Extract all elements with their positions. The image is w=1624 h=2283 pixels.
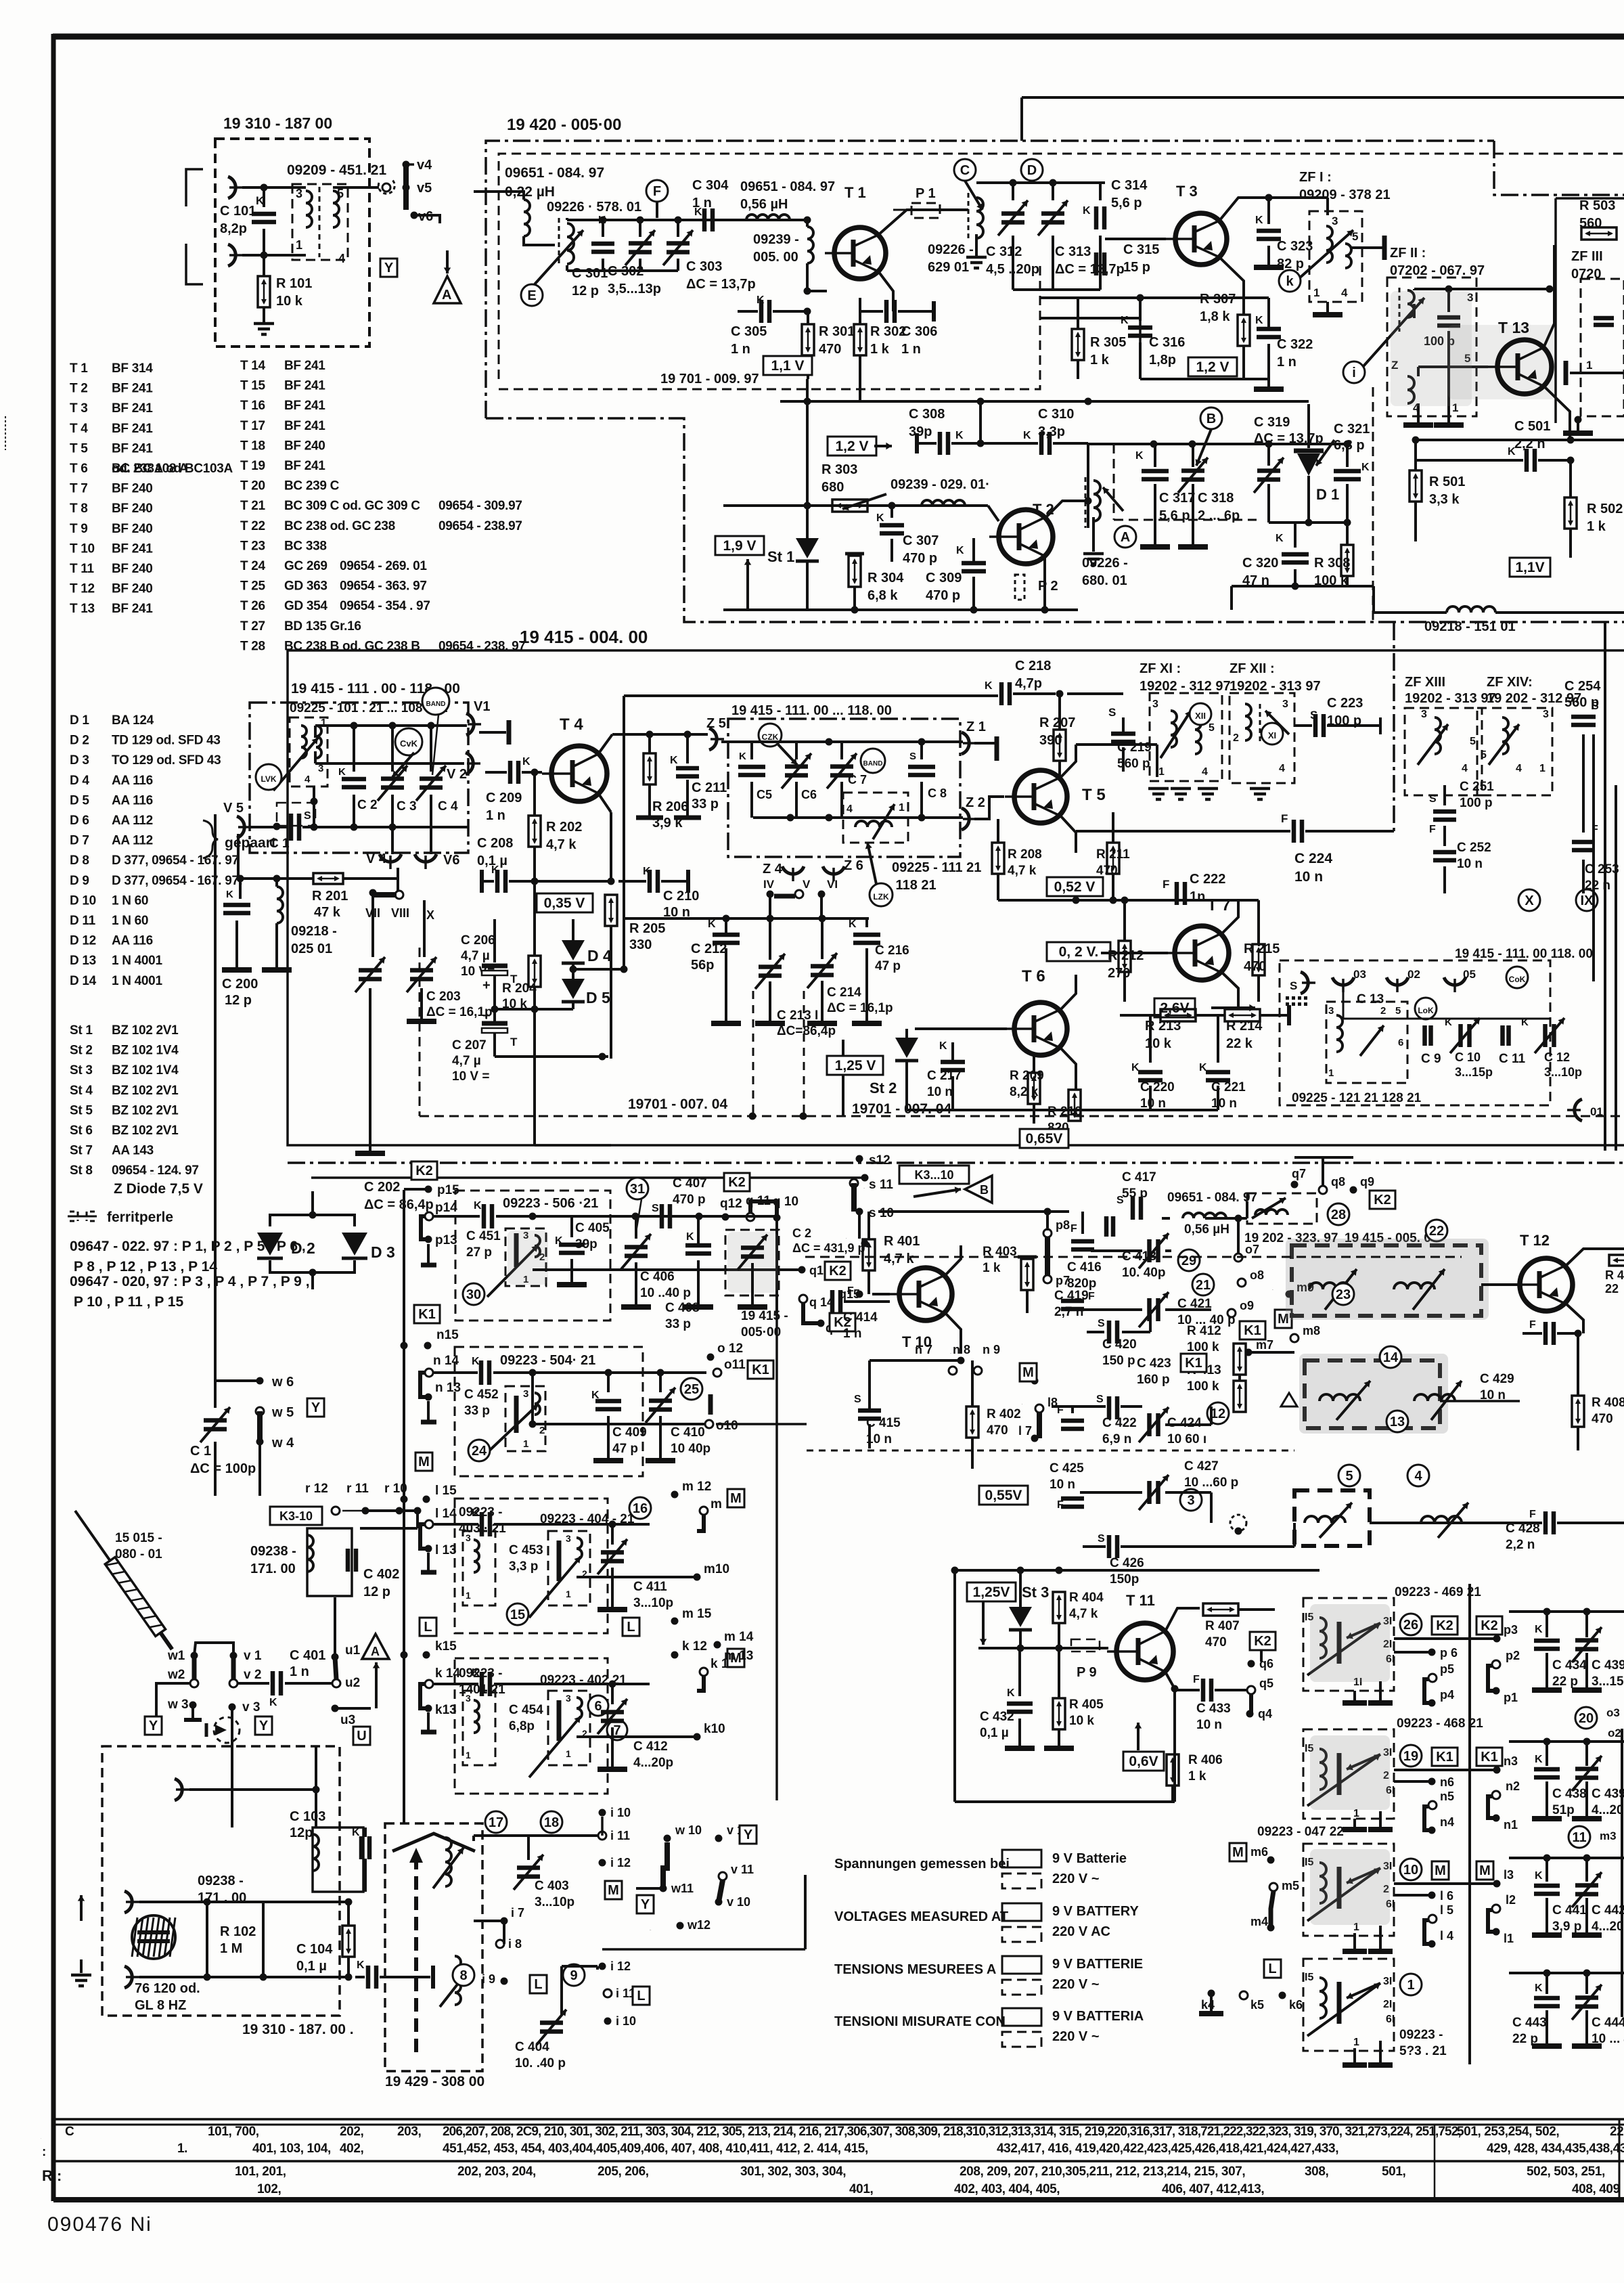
terminals u1 u2 xyxy=(332,1654,339,1661)
svg-text:K: K xyxy=(670,755,678,766)
svg-text:S: S xyxy=(909,751,916,762)
svg-text:E: E xyxy=(527,288,536,303)
trimmer C439b xyxy=(1585,1742,1588,1766)
svg-text:n2: n2 xyxy=(1506,1779,1520,1793)
ground ZF XI xyxy=(1148,789,1169,799)
svg-text:S: S xyxy=(1116,1195,1124,1206)
svg-text:LoK: LoK xyxy=(1418,1006,1434,1015)
svg-text:ferritperle: ferritperle xyxy=(107,1210,173,1225)
svg-text:k6: k6 xyxy=(1289,1998,1303,2012)
trimmer C412 xyxy=(611,1684,614,1704)
svg-text:4: 4 xyxy=(1462,763,1468,774)
svg-text:K: K xyxy=(686,1231,694,1243)
ZF XIV box xyxy=(1477,708,1552,795)
resistor R405 xyxy=(1053,1698,1065,1729)
terminal p6 xyxy=(1428,1649,1436,1656)
circled 23 xyxy=(1332,1283,1354,1305)
ground left xyxy=(80,1959,83,1973)
terminals v12 v11 v10 xyxy=(715,1835,723,1842)
svg-text:C 4: C 4 xyxy=(438,799,458,814)
svg-text:C 200: C 200 xyxy=(222,977,258,992)
svg-text:09209 - 451. 21: 09209 - 451. 21 xyxy=(287,162,386,178)
svg-text:k 12: k 12 xyxy=(682,1639,707,1654)
capacitor C433 xyxy=(1203,1679,1211,1702)
diode D3 xyxy=(342,1233,367,1256)
R412 actual xyxy=(1234,1344,1246,1375)
svg-text:429, 428, 434,435,438,439,44: 429, 428, 434,435,438,439,44 xyxy=(1487,2142,1624,2156)
terminals m9 m8 m7 xyxy=(1286,1291,1293,1298)
svg-text:29: 29 xyxy=(1181,1254,1196,1268)
trimmer C302 xyxy=(639,220,641,237)
resistor R402 xyxy=(966,1406,978,1438)
module box 19310-187.00 xyxy=(215,139,369,347)
antenna dashed box 19429-308.00 xyxy=(385,1823,482,2071)
trimmer C2 gang xyxy=(725,1230,779,1295)
circle k xyxy=(1279,270,1301,292)
svg-text:p13: p13 xyxy=(435,1233,457,1247)
svg-text:3: 3 xyxy=(566,1533,571,1544)
terminal k15 xyxy=(423,1652,430,1659)
bold dashed tuner box 2 xyxy=(1305,1360,1440,1428)
capacitor C434 xyxy=(1546,1612,1548,1637)
coil switch bank1 xyxy=(505,1228,546,1286)
svg-text:5: 5 xyxy=(1395,1005,1401,1017)
voltage box 0.65V xyxy=(1020,1129,1068,1148)
terminal l13 xyxy=(425,1545,432,1553)
svg-text:w 10: w 10 xyxy=(675,1823,702,1837)
resistor R102 xyxy=(342,1926,355,1957)
svg-text:4: 4 xyxy=(1516,763,1522,774)
svg-text:09223 - 468 21: 09223 - 468 21 xyxy=(1397,1716,1483,1731)
wire l8 row xyxy=(1052,1405,1106,1408)
K2 boxes t10 xyxy=(830,1313,855,1331)
svg-text:VIII: VIII xyxy=(391,906,409,920)
resistor R413 xyxy=(1234,1381,1246,1412)
capacitor C432 xyxy=(1018,1648,1021,1696)
svg-text:k15: k15 xyxy=(435,1639,457,1654)
svg-text:5: 5 xyxy=(1470,736,1476,747)
wire w4 down xyxy=(258,1442,261,1496)
small dashed box 28 xyxy=(1247,1193,1317,1224)
trimmer C410 xyxy=(659,1373,662,1392)
resistor R406 xyxy=(1167,1754,1179,1786)
terminal q11 xyxy=(746,1213,754,1221)
w1-v1 bridge xyxy=(194,1643,233,1656)
M box right col xyxy=(1230,1843,1246,1861)
terminal i9 xyxy=(501,1978,508,1985)
capacitor C2 xyxy=(353,726,355,772)
voltage box 0.55V xyxy=(979,1486,1028,1505)
circled 9 xyxy=(563,1964,585,1986)
diode D5 xyxy=(572,962,574,980)
terminal l5 xyxy=(1428,1915,1437,1923)
mid dashdot tuner box xyxy=(728,719,960,857)
C438 C439b rail xyxy=(1509,1740,1624,1743)
svg-text:2: 2 xyxy=(539,1425,545,1436)
svg-text:3: 3 xyxy=(1543,709,1549,720)
svg-text:1: 1 xyxy=(1328,1067,1334,1079)
svg-text:T: T xyxy=(510,1036,518,1048)
svg-text:w2: w2 xyxy=(167,1668,185,1682)
terminal q6 xyxy=(1248,1660,1255,1668)
K2 box q15 xyxy=(825,1262,851,1280)
svg-text:K: K xyxy=(1535,1870,1543,1882)
T11 emitter xyxy=(1165,1672,1175,1802)
svg-text:M: M xyxy=(730,1491,742,1506)
capacitor C253 xyxy=(1572,842,1595,850)
transistor T4 xyxy=(542,746,607,801)
band switch V4 contacts xyxy=(397,868,399,891)
svg-text:K: K xyxy=(491,864,499,876)
bank4 dashed 09223-401/402 xyxy=(455,1658,608,1794)
antenna mast dashed arrow xyxy=(414,1856,418,2056)
terminal pair mid xyxy=(378,180,394,194)
trimmer C411 xyxy=(611,1524,614,1545)
wire transformer out xyxy=(333,186,379,189)
varicap D1 xyxy=(1307,404,1310,448)
svg-text:K: K xyxy=(1007,1687,1015,1699)
svg-text:3: 3 xyxy=(1152,699,1158,710)
svg-text:K: K xyxy=(1508,446,1516,458)
svg-text:Y: Y xyxy=(149,1719,158,1733)
legend symbol 3 xyxy=(1002,1956,1041,1974)
svg-text:n 7: n 7 xyxy=(915,1343,932,1356)
svg-text:09226 · 578. 01: 09226 · 578. 01 xyxy=(547,200,641,215)
svg-text:19 310 - 187. 00 .: 19 310 - 187. 00 . xyxy=(242,2022,354,2037)
capacitor C103 xyxy=(361,1836,369,1859)
terminals k12 k11 k10 xyxy=(671,1652,679,1659)
svg-text:C 1: C 1 xyxy=(269,837,290,851)
terminal l2 xyxy=(1492,1905,1500,1913)
terminal n13 xyxy=(425,1394,432,1401)
capacitor C217 xyxy=(941,1062,965,1070)
svg-text:M: M xyxy=(1435,1863,1446,1878)
svg-text:i: i xyxy=(1352,365,1356,380)
module border 19415-004.00 xyxy=(288,650,1624,1145)
capacitor C316 xyxy=(1139,298,1142,321)
svg-text:i 12: i 12 xyxy=(610,1959,631,1973)
svg-text:F: F xyxy=(1070,1223,1077,1235)
svg-text:S: S xyxy=(1429,793,1437,805)
transistor T1 xyxy=(825,227,886,279)
wires t10 long xyxy=(805,1256,1462,1258)
wire ZFI pin1 gnd xyxy=(1326,302,1329,313)
svg-text:220 V ~: 220 V ~ xyxy=(1052,2029,1100,2044)
svg-text:Z 5: Z 5 xyxy=(706,716,726,731)
terminal n1 xyxy=(1493,1815,1500,1822)
svg-text:1: 1 xyxy=(566,1589,571,1599)
svg-text:K2: K2 xyxy=(728,1175,746,1190)
bottom stage rail xyxy=(723,608,1078,611)
svg-text:T 2: T 2 xyxy=(1033,501,1054,518)
voltage box 1.25V t11 xyxy=(967,1582,1016,1601)
transistor T6 xyxy=(1005,1002,1067,1055)
svg-text:v 2: v 2 xyxy=(244,1668,261,1682)
svg-text:4: 4 xyxy=(338,252,345,265)
terminal q4 xyxy=(1246,1710,1254,1718)
svg-text:408, 409: 408, 409 xyxy=(1572,2182,1620,2196)
long bus wire T1 emitter row xyxy=(780,400,1309,403)
wire ZFI pin5 out xyxy=(1351,246,1384,249)
wire o7 stub xyxy=(1237,1218,1240,1254)
circled 31 xyxy=(627,1178,648,1199)
module box 19310-187.00 bottom xyxy=(102,1746,340,2016)
capacitor C223 xyxy=(1315,714,1324,737)
wire T3 emitter xyxy=(1219,257,1244,298)
svg-text:T 6: T 6 xyxy=(1022,967,1045,985)
circled 21 xyxy=(1192,1274,1214,1295)
svg-text:St 1: St 1 xyxy=(767,548,794,565)
ZF XII box xyxy=(1230,693,1294,783)
wire p9 row xyxy=(878,1210,1069,1213)
svg-text:k 14: k 14 xyxy=(435,1666,460,1681)
svg-text:L: L xyxy=(637,1989,645,2003)
svg-text:Y: Y xyxy=(641,1897,650,1912)
capacitor C315 xyxy=(1096,252,1104,275)
wire coil 056 row xyxy=(1162,1217,1170,1220)
capacitor C419 xyxy=(1061,1301,1084,1309)
svg-text:K1: K1 xyxy=(752,1362,769,1377)
svg-text:VOLTAGES MEASURED AT: VOLTAGES MEASURED AT xyxy=(834,1909,1008,1924)
trimmer C427 xyxy=(1150,1481,1158,1504)
svg-text:09239 - 029. 01·: 09239 - 029. 01· xyxy=(890,477,990,492)
AGC line top xyxy=(1022,96,1624,99)
svg-text:101, 700,: 101, 700, xyxy=(208,2125,259,2139)
svg-text:K: K xyxy=(694,206,702,218)
svg-text:406, 407, 412,413,: 406, 407, 412,413, xyxy=(1162,2182,1264,2196)
svg-text:k10: k10 xyxy=(704,1722,725,1736)
svg-text:0,52 V: 0,52 V xyxy=(1054,879,1096,895)
capacitor C420 xyxy=(1109,1321,1117,1344)
svg-text:19 415 - 111. 00 ... 118. 00: 19 415 - 111. 00 ... 118. 00 xyxy=(731,703,892,718)
voltage box 1.2V xyxy=(828,437,876,456)
svg-text:CZK: CZK xyxy=(762,732,779,742)
terminal q10 xyxy=(773,1214,781,1222)
svg-text:F: F xyxy=(1193,1674,1200,1685)
capacitor C429 xyxy=(1546,1322,1554,1345)
svg-text:w12: w12 xyxy=(687,1918,710,1932)
svg-text:K: K xyxy=(472,1356,480,1367)
circled 9 area wires xyxy=(474,1920,504,1922)
circled 18 xyxy=(541,1811,562,1833)
grounds switchA xyxy=(1353,1691,1356,1701)
svg-text:V 5: V 5 xyxy=(223,801,244,816)
wire w2 left xyxy=(156,1683,190,1716)
module bottom dashdot xyxy=(288,1161,1624,1164)
terminal V6 xyxy=(430,827,432,854)
svg-text:m3: m3 xyxy=(1600,1830,1617,1842)
svg-text:28: 28 xyxy=(1331,1207,1346,1222)
ferrite coil 09239 xyxy=(922,500,965,506)
svg-text:3: 3 xyxy=(1421,709,1427,720)
circled 15 xyxy=(507,1603,528,1625)
capacitor C212 xyxy=(624,917,869,920)
circled 20 xyxy=(1575,1707,1597,1729)
svg-text:T 7: T 7 xyxy=(1207,896,1231,914)
voltage box 1.1V right xyxy=(1510,558,1550,577)
bank3 wiper row xyxy=(577,1576,697,1578)
switchbox C dashed xyxy=(1303,1844,1394,1936)
resistor R215 xyxy=(1253,944,1265,975)
svg-text:P 2: P 2 xyxy=(1038,579,1058,594)
ZF IIC inner dashed box xyxy=(1581,279,1624,416)
svg-text:Y: Y xyxy=(384,261,394,275)
svg-text:S: S xyxy=(652,1203,659,1214)
T11 collector xyxy=(1165,1608,1200,1631)
svg-text:05: 05 xyxy=(1463,968,1476,981)
svg-text:K: K xyxy=(643,866,651,877)
capacitor C453 3.3p xyxy=(433,1523,478,1526)
mast coil lower xyxy=(455,1956,461,2005)
dash right area xyxy=(1393,623,1395,831)
trimmer C442 xyxy=(1585,1858,1588,1882)
svg-text:101, 201,: 101, 201, xyxy=(235,2165,286,2179)
svg-text:451,452, 453, 454, 403,404,405: 451,452, 453, 454, 403,404,405,409,406, … xyxy=(443,2142,868,2156)
circled 19 xyxy=(1400,1745,1422,1767)
circled 22 xyxy=(1426,1220,1447,1241)
svg-text:q5: q5 xyxy=(1259,1677,1273,1690)
svg-text:X: X xyxy=(1525,893,1534,908)
bank2 wiper row xyxy=(533,1423,707,1425)
svg-text:T 4: T 4 xyxy=(560,715,583,734)
terminal n6 xyxy=(1428,1778,1436,1786)
svg-text:p5: p5 xyxy=(1440,1662,1454,1676)
coil switch bank2 xyxy=(505,1386,545,1451)
capacitor C314 xyxy=(1099,183,1102,200)
row 1330 xyxy=(998,899,1259,902)
circled 29 xyxy=(1178,1249,1200,1271)
svg-text:T 3: T 3 xyxy=(1176,183,1198,200)
svg-text:M: M xyxy=(608,1883,619,1898)
resistor R202 xyxy=(533,772,536,816)
soldering iron symbol xyxy=(70,1507,177,1653)
circled 16 xyxy=(629,1497,651,1519)
svg-text:0,65V: 0,65V xyxy=(1026,1131,1063,1147)
svg-text:o3: o3 xyxy=(1606,1706,1620,1719)
terminals p9 p8 p7 xyxy=(861,1240,869,1247)
capacitor C320 xyxy=(1294,523,1296,548)
svg-text:4: 4 xyxy=(1279,763,1285,774)
svg-text:9 V BATTERIE: 9 V BATTERIE xyxy=(1052,1957,1143,1972)
svg-text:A: A xyxy=(1121,530,1130,545)
circle C xyxy=(954,159,976,181)
wire lower jack xyxy=(242,254,306,257)
svg-text:090476 Ni: 090476 Ni xyxy=(47,2213,152,2236)
svg-text:D 3: D 3 xyxy=(371,1243,395,1261)
svg-text:13: 13 xyxy=(1390,1415,1405,1429)
terminals o3 o2 o5 top xyxy=(1332,977,1354,992)
trimmer C312 xyxy=(1012,183,1014,200)
terminal p4 xyxy=(1428,1700,1436,1707)
svg-text:p 6: p 6 xyxy=(1440,1646,1458,1660)
bank2 dashed box 09223-504-21 xyxy=(455,1347,643,1476)
resistor R206 xyxy=(648,734,651,753)
svg-text:16: 16 xyxy=(633,1501,648,1516)
trimmer C424 xyxy=(1150,1413,1158,1436)
wire vertical C310 to T3 area xyxy=(979,401,982,443)
svg-text:w11: w11 xyxy=(671,1882,694,1895)
trimmer in C13 xyxy=(1360,1025,1384,1056)
svg-text:1: 1 xyxy=(296,238,302,252)
circle i xyxy=(1343,361,1365,383)
grounds switchC xyxy=(1353,1933,1356,1949)
capacitor C200 xyxy=(239,879,242,899)
svg-text:9: 9 xyxy=(570,1968,577,1983)
svg-text:9 V BATTERY: 9 V BATTERY xyxy=(1052,1904,1139,1919)
svg-text:22: 22 xyxy=(1429,1224,1444,1239)
K3-10 box right xyxy=(899,1166,969,1184)
svg-text:3: 3 xyxy=(466,1693,471,1704)
terminals w6 w5 w4 xyxy=(256,1377,264,1385)
legend symbol 4 xyxy=(1002,2008,1041,2026)
terminals k4 k5 k6 xyxy=(1208,1990,1215,1997)
svg-text:p4: p4 xyxy=(1440,1688,1454,1702)
svg-text:C 9: C 9 xyxy=(1421,1052,1441,1066)
wire q8 stub xyxy=(1322,1157,1324,1186)
svg-text:B: B xyxy=(1206,412,1216,426)
wire T13 collector xyxy=(1543,245,1554,348)
svg-text:w 4: w 4 xyxy=(271,1436,294,1450)
transistor T11 xyxy=(1107,1623,1173,1680)
capacitor C422 xyxy=(1061,1421,1084,1429)
scan smudge ZFII xyxy=(1391,291,1472,406)
terminal q5 xyxy=(1247,1686,1255,1694)
coil 09218-151.01 xyxy=(1447,606,1495,613)
ground sym small xyxy=(1281,1393,1297,1406)
terminal V5 xyxy=(237,816,252,838)
svg-text:S: S xyxy=(1108,706,1116,719)
terminal q15 xyxy=(856,1291,863,1298)
hres R214 xyxy=(1225,1009,1260,1021)
trimmer C318 xyxy=(1192,444,1194,467)
coil 09239-005.00 xyxy=(807,227,813,263)
D2 D3 wires xyxy=(270,1215,355,1226)
bold dashed tuner box 3 xyxy=(1294,1490,1370,1546)
svg-text:501,: 501, xyxy=(1382,2165,1406,2179)
node A triangle xyxy=(434,276,461,303)
svg-text:D 2: D 2 xyxy=(291,1239,315,1257)
terminal p14 xyxy=(425,1212,433,1220)
wire T2 base xyxy=(965,504,988,507)
K2 t10 right xyxy=(1370,1191,1395,1209)
svg-text:1.: 1. xyxy=(177,2142,187,2156)
svg-text:K: K xyxy=(1535,1624,1543,1635)
resistor R304 xyxy=(849,556,861,587)
bank1 wiper row xyxy=(533,1268,798,1271)
rail under C312-C314 xyxy=(1013,288,1100,291)
wire C420 leads xyxy=(1087,1331,1104,1333)
wire T4 emitter xyxy=(598,793,611,812)
capacitor C425 xyxy=(1061,1499,1084,1507)
svg-text:n 9: n 9 xyxy=(983,1343,1000,1356)
svg-text:K: K xyxy=(1131,1062,1140,1073)
switch bank3 xyxy=(548,1531,590,1605)
svg-text:401,: 401, xyxy=(849,2182,874,2196)
svg-text:m 13: m 13 xyxy=(724,1649,753,1663)
svg-text:09223 - 504· 21: 09223 - 504· 21 xyxy=(500,1353,595,1368)
svg-text:5: 5 xyxy=(1481,749,1487,761)
svg-text:1: 1 xyxy=(1586,359,1592,372)
L box i9 xyxy=(530,1975,547,1993)
svg-text:202, 203, 204,: 202, 203, 204, xyxy=(457,2165,536,2179)
terminal v3 xyxy=(229,1704,236,1711)
long vertical to C1 xyxy=(214,1151,217,1408)
svg-text:CoK: CoK xyxy=(1509,975,1526,984)
wire C404 to i12 xyxy=(562,1965,597,1968)
svg-text:K2: K2 xyxy=(1436,1618,1453,1633)
capacitor C317 xyxy=(1154,444,1156,467)
trimmer C3 xyxy=(391,726,394,772)
